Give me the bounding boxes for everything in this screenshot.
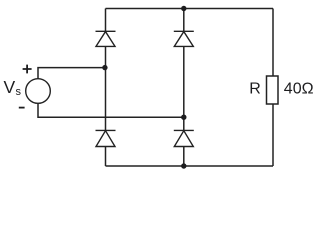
svg-text:s: s bbox=[16, 86, 22, 98]
diode D3 bottom-left bbox=[96, 130, 116, 146]
wire left branch vertical bbox=[105, 9, 107, 167]
wire Vs plus terminal to node A bbox=[38, 68, 105, 79]
wire Vs minus terminal to node B bbox=[38, 103, 184, 117]
svg-text:R: R bbox=[249, 81, 261, 98]
node bottom junction dot bbox=[181, 163, 186, 168]
svg-text:40Ω: 40Ω bbox=[284, 81, 314, 98]
plus sign bbox=[23, 65, 32, 74]
wire middle branch vertical bbox=[183, 9, 185, 167]
voltage source Vs circle bbox=[26, 79, 51, 104]
resistor R body bbox=[267, 76, 279, 104]
diode D4 bottom-middle bbox=[174, 130, 194, 146]
diode D1 top-left bbox=[96, 31, 116, 46]
wire right branch vertical bbox=[272, 9, 274, 167]
node B junction dot bbox=[181, 115, 186, 120]
wire top rail bbox=[106, 8, 274, 10]
node top junction dot bbox=[181, 6, 186, 11]
wire bottom rail bbox=[106, 165, 274, 167]
svg-text:V: V bbox=[4, 77, 16, 97]
minus sign bbox=[19, 107, 25, 109]
node A junction dot bbox=[102, 65, 107, 70]
diode D2 top-middle bbox=[174, 31, 194, 46]
